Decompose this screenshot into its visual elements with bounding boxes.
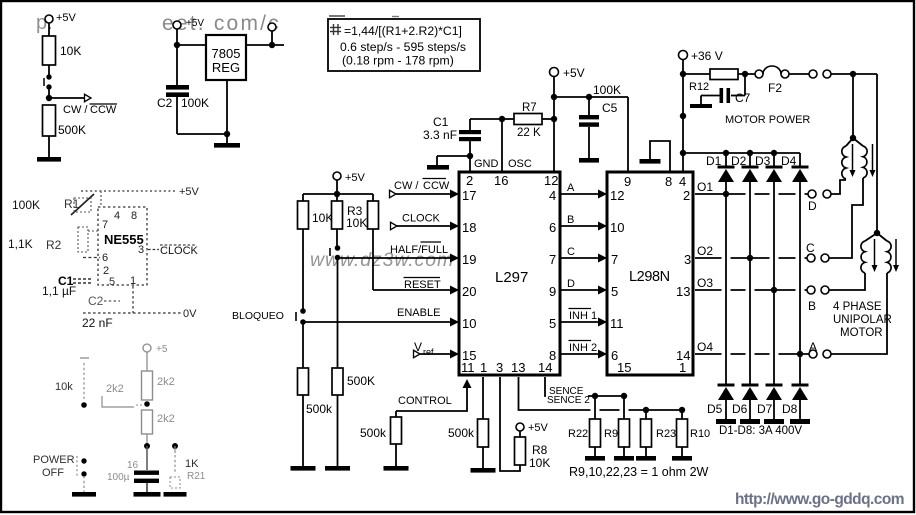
svg-text:INH 1: INH 1 — [569, 310, 597, 322]
diode D1 — [725, 153, 727, 166]
wire — [437, 155, 470, 157]
svg-text:C5: C5 — [602, 101, 618, 115]
wire output O4 — [695, 353, 809, 355]
svg-text:14: 14 — [538, 360, 552, 375]
wire — [48, 87, 50, 98]
inductor winding1 left — [846, 138, 853, 146]
svg-text:2k2: 2k2 — [157, 376, 175, 388]
svg-text:20: 20 — [462, 284, 476, 299]
diode D5 — [718, 384, 735, 387]
svg-text:3: 3 — [138, 244, 144, 256]
connector phase A — [809, 350, 817, 358]
node gnd — [224, 131, 230, 137]
svg-text:RESET: RESET — [404, 279, 441, 291]
svg-text:5: 5 — [549, 316, 556, 331]
wire pin1 dotted — [132, 286, 134, 313]
wire — [48, 136, 50, 157]
node — [797, 351, 803, 357]
node output — [269, 42, 275, 48]
svg-text:GND: GND — [474, 158, 499, 170]
svg-text:3: 3 — [684, 252, 691, 267]
svg-text:10: 10 — [610, 220, 624, 235]
svg-text:L297: L297 — [495, 269, 528, 286]
svg-text:100K: 100K — [181, 96, 209, 110]
svg-text:2k2: 2k2 — [106, 383, 124, 395]
ground — [325, 466, 350, 471]
wire INH1 — [560, 321, 600, 323]
wire +5V column — [553, 77, 555, 173]
node — [586, 94, 592, 100]
resistor 500k enable — [298, 368, 309, 395]
regulator U3 7805 — [206, 35, 246, 80]
svg-text:10K: 10K — [529, 456, 550, 470]
ground — [740, 419, 760, 424]
svg-text:MOTOR: MOTOR — [840, 327, 883, 339]
node — [334, 191, 340, 197]
CLOCK output NE555 — [148, 249, 159, 251]
wire phase D — [560, 289, 600, 291]
diode D7 — [766, 384, 783, 387]
fuse F2 — [755, 70, 763, 78]
wire R3 to switch — [336, 229, 338, 246]
wire D to winding — [831, 180, 846, 194]
wire diode column — [773, 182, 775, 384]
node — [742, 71, 748, 77]
svg-text:R23: R23 — [656, 428, 676, 440]
node CW/CCW junction — [46, 95, 52, 101]
wire CW/CCW output arrow — [49, 97, 85, 99]
node — [771, 150, 777, 156]
node 7805 input — [174, 42, 180, 48]
label SENCE 2 — [546, 395, 588, 404]
node — [551, 94, 557, 100]
ground — [716, 419, 736, 424]
svg-text:R7: R7 — [522, 102, 537, 114]
wire — [773, 400, 775, 419]
switch S1 contacts — [46, 74, 51, 79]
svg-text:7805: 7805 — [212, 46, 241, 61]
wire — [146, 352, 148, 371]
resistor 2k2 upper — [142, 371, 153, 400]
svg-text:D4: D4 — [781, 154, 797, 168]
svg-text:D3: D3 — [755, 154, 771, 168]
wire C to winding — [829, 178, 863, 258]
svg-text:+5V: +5V — [179, 186, 200, 198]
wire pin4 +36 feed — [682, 74, 684, 172]
switch HALF/FULL — [335, 245, 341, 251]
svg-text:8: 8 — [665, 174, 672, 189]
node winding1 tap — [850, 135, 856, 141]
svg-text:OFF: OFF — [42, 467, 64, 479]
svg-text:500k: 500k — [448, 426, 475, 440]
svg-text:5: 5 — [611, 284, 618, 299]
wire CONTROL to pin11 — [463, 379, 472, 388]
svg-text:C2: C2 — [157, 96, 173, 110]
svg-text:19: 19 — [462, 252, 476, 267]
svg-text:D: D — [808, 199, 817, 213]
IC U1 L297 — [459, 172, 560, 375]
svg-text:D5: D5 — [707, 402, 723, 416]
svg-text:100K: 100K — [12, 198, 40, 212]
wire phase C — [560, 257, 600, 259]
wire — [799, 400, 801, 419]
svg-text:O2: O2 — [697, 244, 713, 258]
svg-text:3: 3 — [496, 360, 503, 375]
svg-text:11: 11 — [610, 316, 624, 331]
wire 7805 output — [246, 44, 284, 46]
resistor 500K half — [332, 368, 343, 395]
node winding2 tap — [874, 230, 880, 236]
svg-text:R2: R2 — [46, 238, 62, 252]
svg-text:1: 1 — [480, 360, 487, 375]
svg-text:O1: O1 — [697, 180, 713, 194]
wire pin16 OSC — [501, 119, 503, 172]
svg-text:3.3 nF: 3.3 nF — [423, 128, 457, 142]
wire — [725, 400, 727, 419]
svg-text:(0.18 rpm - 178 rpm): (0.18 rpm - 178 rpm) — [342, 54, 454, 68]
svg-text:HALF/FULL: HALF/FULL — [390, 244, 448, 256]
connector motor power — [809, 70, 817, 78]
svg-text:9: 9 — [624, 174, 631, 189]
svg-text:CONTROL: CONTROL — [398, 395, 452, 407]
wire winding2 feed — [876, 74, 878, 233]
svg-text:+5: +5 — [156, 344, 168, 355]
svg-text:POWER: POWER — [33, 454, 75, 466]
svg-text:17: 17 — [462, 188, 476, 203]
ground — [214, 143, 240, 148]
svg-text:13: 13 — [676, 284, 690, 299]
svg-text:6: 6 — [549, 220, 556, 235]
svg-text:500K: 500K — [58, 123, 86, 137]
output terminal — [271, 31, 273, 45]
svg-text:+5V: +5V — [56, 12, 77, 24]
svg-text:CLOCK: CLOCK — [160, 245, 199, 257]
svg-text:C1: C1 — [433, 115, 449, 129]
wire — [682, 60, 684, 75]
svg-text:CW /: CW / — [63, 104, 88, 116]
wire diode column — [799, 182, 801, 384]
formula text f=1,44 — [330, 27, 341, 29]
inductor winding1 right — [853, 138, 863, 146]
arrow flux — [872, 144, 874, 170]
wire — [48, 65, 50, 75]
svg-text:O3: O3 — [697, 276, 713, 290]
wire — [337, 395, 339, 466]
wire RESET input — [373, 289, 451, 291]
svg-text:C: C — [567, 246, 575, 258]
ground — [164, 492, 187, 497]
node — [592, 393, 598, 399]
svg-text:13: 13 — [511, 360, 525, 375]
wire winding1 feed — [852, 74, 854, 138]
connector phase D — [808, 190, 816, 198]
svg-text:100K: 100K — [593, 83, 621, 97]
arrow flux — [852, 144, 854, 170]
node — [144, 443, 150, 449]
svg-text:D7: D7 — [757, 402, 773, 416]
svg-text:R12: R12 — [689, 81, 709, 93]
svg-text:D1-D8: 3A 400V: D1-D8: 3A 400V — [719, 425, 802, 437]
connector phase B — [807, 286, 815, 294]
svg-text:15: 15 — [617, 360, 631, 375]
wire — [337, 258, 339, 369]
svg-text:=1,44/[(R1+2.R2)*C1]: =1,44/[(R1+2.R2)*C1] — [344, 24, 462, 38]
ground — [579, 158, 599, 163]
wire phase B — [560, 225, 600, 227]
svg-text:+36 V: +36 V — [691, 49, 723, 63]
resistor R7 22K — [502, 118, 514, 120]
resistor 500k sync — [478, 419, 489, 447]
node — [680, 71, 686, 77]
wire C1 to OSC — [470, 118, 502, 120]
svg-text:0.6 step/s - 595 steps/s: 0.6 step/s - 595 steps/s — [340, 40, 466, 54]
svg-text:2: 2 — [683, 188, 690, 203]
marks above box — [329, 15, 345, 17]
svg-text:10K: 10K — [60, 44, 81, 58]
input terminal +V — [173, 21, 181, 29]
diode D3 — [773, 153, 775, 166]
node — [747, 150, 753, 156]
capacitor C7 — [744, 74, 746, 96]
wire HALF/FULL input — [338, 257, 451, 259]
svg-text:14: 14 — [676, 348, 690, 363]
ground — [384, 466, 409, 471]
svg-text:+5V: +5V — [528, 422, 549, 434]
svg-text:O4: O4 — [697, 340, 713, 354]
resistor 2k2 lower — [142, 410, 153, 434]
svg-text:V: V — [414, 340, 422, 354]
svg-text:10K: 10K — [346, 216, 367, 230]
IC U4 L298N — [607, 172, 693, 375]
svg-text:ENABLE: ENABLE — [397, 307, 440, 319]
node — [680, 150, 686, 156]
ground — [72, 492, 96, 497]
ground — [427, 165, 449, 170]
svg-text:12: 12 — [610, 188, 624, 203]
svg-text:100µ: 100µ — [107, 472, 130, 483]
svg-text:4 PHASE: 4 PHASE — [833, 301, 882, 313]
svg-text:2k2: 2k2 — [157, 413, 175, 425]
svg-text:4: 4 — [114, 210, 120, 222]
svg-text:R9,10,22,23 = 1 ohm 2W: R9,10,22,23 = 1 ohm 2W — [569, 465, 709, 479]
svg-text:4: 4 — [549, 188, 556, 203]
ground — [790, 419, 810, 424]
node — [771, 287, 777, 293]
formula box — [328, 19, 480, 71]
svg-text:CCW: CCW — [423, 180, 450, 192]
+36V terminal — [679, 51, 688, 60]
wire 7805 gnd pin — [226, 80, 228, 134]
svg-text:http://www.go-gddq.com: http://www.go-gddq.com — [735, 491, 904, 508]
label SENCE — [548, 386, 584, 395]
capacitor C6 100u — [146, 446, 148, 470]
wire pin9 feed — [627, 97, 629, 172]
wire RESET pullup — [372, 229, 374, 290]
wire — [395, 444, 397, 466]
svg-text:R8: R8 — [532, 443, 548, 457]
node — [621, 393, 627, 399]
node — [680, 113, 686, 119]
svg-text:B: B — [808, 299, 816, 313]
NE555 +5V dotted rail — [81, 190, 176, 192]
svg-text:F2: F2 — [768, 81, 782, 95]
wire — [789, 73, 809, 75]
svg-text:0V: 0V — [183, 308, 197, 320]
node — [723, 150, 729, 156]
wire pin8 gnd — [650, 141, 670, 172]
resistor 10K — [43, 36, 56, 65]
svg-text:7: 7 — [611, 252, 618, 267]
svg-text:B: B — [567, 214, 574, 226]
svg-text:REG: REG — [212, 60, 240, 75]
arrow flux — [874, 239, 876, 265]
capacitor C2 100K — [176, 45, 178, 85]
svg-text:D: D — [567, 278, 575, 290]
wire output O1 — [695, 193, 809, 195]
wire gnd rail — [177, 133, 227, 135]
svg-text:500K: 500K — [347, 374, 375, 388]
wire B to winding — [829, 273, 865, 290]
svg-text:C: C — [806, 241, 815, 255]
resistor R22 — [594, 396, 596, 419]
wire — [302, 229, 304, 311]
svg-text:18: 18 — [462, 220, 476, 235]
wire SENCE from pin14 — [545, 377, 624, 396]
arrow flux — [895, 239, 897, 265]
svg-text:16: 16 — [494, 173, 508, 188]
svg-text:22 K: 22 K — [517, 127, 541, 139]
wire — [302, 322, 304, 368]
resistor 500K — [43, 105, 56, 136]
wire — [831, 73, 877, 75]
svg-text:+5V: +5V — [345, 172, 366, 184]
svg-text:+5V: +5V — [186, 18, 204, 29]
wire CW/CCW input — [390, 190, 397, 198]
svg-text:R22: R22 — [568, 428, 588, 440]
svg-text:10k: 10k — [55, 381, 73, 393]
node — [643, 407, 649, 413]
svg-text:7: 7 — [549, 252, 556, 267]
ground — [134, 492, 161, 497]
svg-text:C7: C7 — [735, 91, 751, 105]
ground — [37, 157, 61, 162]
inductor winding2 left — [865, 233, 877, 241]
resistor R9 — [623, 396, 625, 419]
svg-text:1: 1 — [130, 275, 136, 287]
svg-text:OSC: OSC — [508, 158, 532, 170]
wire — [146, 434, 148, 446]
diode D4 — [799, 153, 801, 166]
svg-text:6: 6 — [102, 252, 108, 264]
wire — [482, 447, 484, 468]
ground — [764, 419, 784, 424]
wire — [302, 395, 304, 466]
+5V terminal T1 — [45, 15, 53, 23]
diode D8 — [792, 384, 809, 387]
ground — [672, 456, 692, 461]
svg-text:1,1K: 1,1K — [8, 237, 33, 251]
svg-text:D2: D2 — [731, 154, 747, 168]
NE555 box U2 — [98, 207, 147, 285]
wire pin3 to R8 — [500, 377, 520, 471]
wire 100K rail — [554, 96, 628, 98]
svg-text:R21: R21 — [187, 471, 206, 482]
node — [679, 407, 685, 413]
svg-text:D8: D8 — [782, 402, 798, 416]
wire output O2 — [695, 257, 808, 259]
node — [144, 401, 150, 407]
+5V terminal T3 — [550, 68, 559, 77]
svg-text:C2: C2 — [88, 294, 104, 308]
capacitor C5 — [588, 97, 590, 115]
resistor R23 — [645, 410, 647, 419]
wire SENCE2 from pin13 — [519, 377, 683, 410]
resistor 500k control — [391, 417, 402, 444]
inductor winding2 right — [877, 233, 887, 241]
ground — [690, 104, 712, 108]
resistor R12 — [683, 73, 710, 75]
wire pin1 column — [482, 377, 484, 419]
+5V terminal T4 — [516, 423, 524, 431]
wire A to winding — [831, 273, 887, 354]
node — [747, 255, 753, 261]
ground — [640, 159, 661, 164]
wire — [48, 23, 50, 36]
svg-text:4: 4 — [679, 174, 686, 189]
node — [172, 443, 178, 449]
wire rail — [303, 193, 373, 195]
wire — [749, 400, 751, 419]
wire — [177, 44, 206, 46]
svg-text:CCW: CCW — [90, 104, 117, 116]
wire dotted — [100, 191, 102, 207]
connector phase C — [807, 254, 815, 262]
wire — [302, 194, 304, 201]
svg-text:BLOQUEO: BLOQUEO — [232, 310, 284, 322]
svg-text:12: 12 — [544, 173, 558, 188]
svg-text:D1: D1 — [706, 154, 722, 168]
0V dotted rail — [83, 312, 181, 314]
svg-text:L298N: L298N — [629, 269, 670, 285]
resistor 1K faint — [174, 446, 176, 453]
node — [723, 191, 729, 197]
svg-text:+5V: +5V — [563, 66, 585, 80]
svg-text:A: A — [567, 182, 575, 194]
node — [551, 116, 557, 122]
wire CLOCK input — [391, 222, 398, 230]
svg-text:5: 5 — [109, 276, 115, 288]
node — [467, 153, 473, 159]
wire diode column — [749, 182, 751, 384]
wire INH2 — [560, 353, 600, 355]
resistor R8 10K — [519, 431, 521, 437]
wire pin2 — [469, 156, 471, 172]
svg-text:CW /: CW / — [394, 180, 419, 192]
svg-text:500k: 500k — [360, 426, 387, 440]
svg-text:16: 16 — [127, 460, 139, 471]
resistor 10K pullup — [298, 201, 309, 229]
svg-text:10: 10 — [462, 316, 476, 331]
wire diode column — [725, 182, 727, 384]
wire ENABLE input — [303, 321, 451, 323]
wire phase A — [560, 193, 600, 195]
svg-text:R10: R10 — [690, 428, 710, 440]
svg-text:R9: R9 — [604, 428, 618, 440]
svg-text:SENCE 2: SENCE 2 — [547, 395, 590, 406]
svg-text:D6: D6 — [732, 402, 748, 416]
resistor R10 — [681, 410, 683, 419]
wire output O3 — [695, 289, 808, 291]
